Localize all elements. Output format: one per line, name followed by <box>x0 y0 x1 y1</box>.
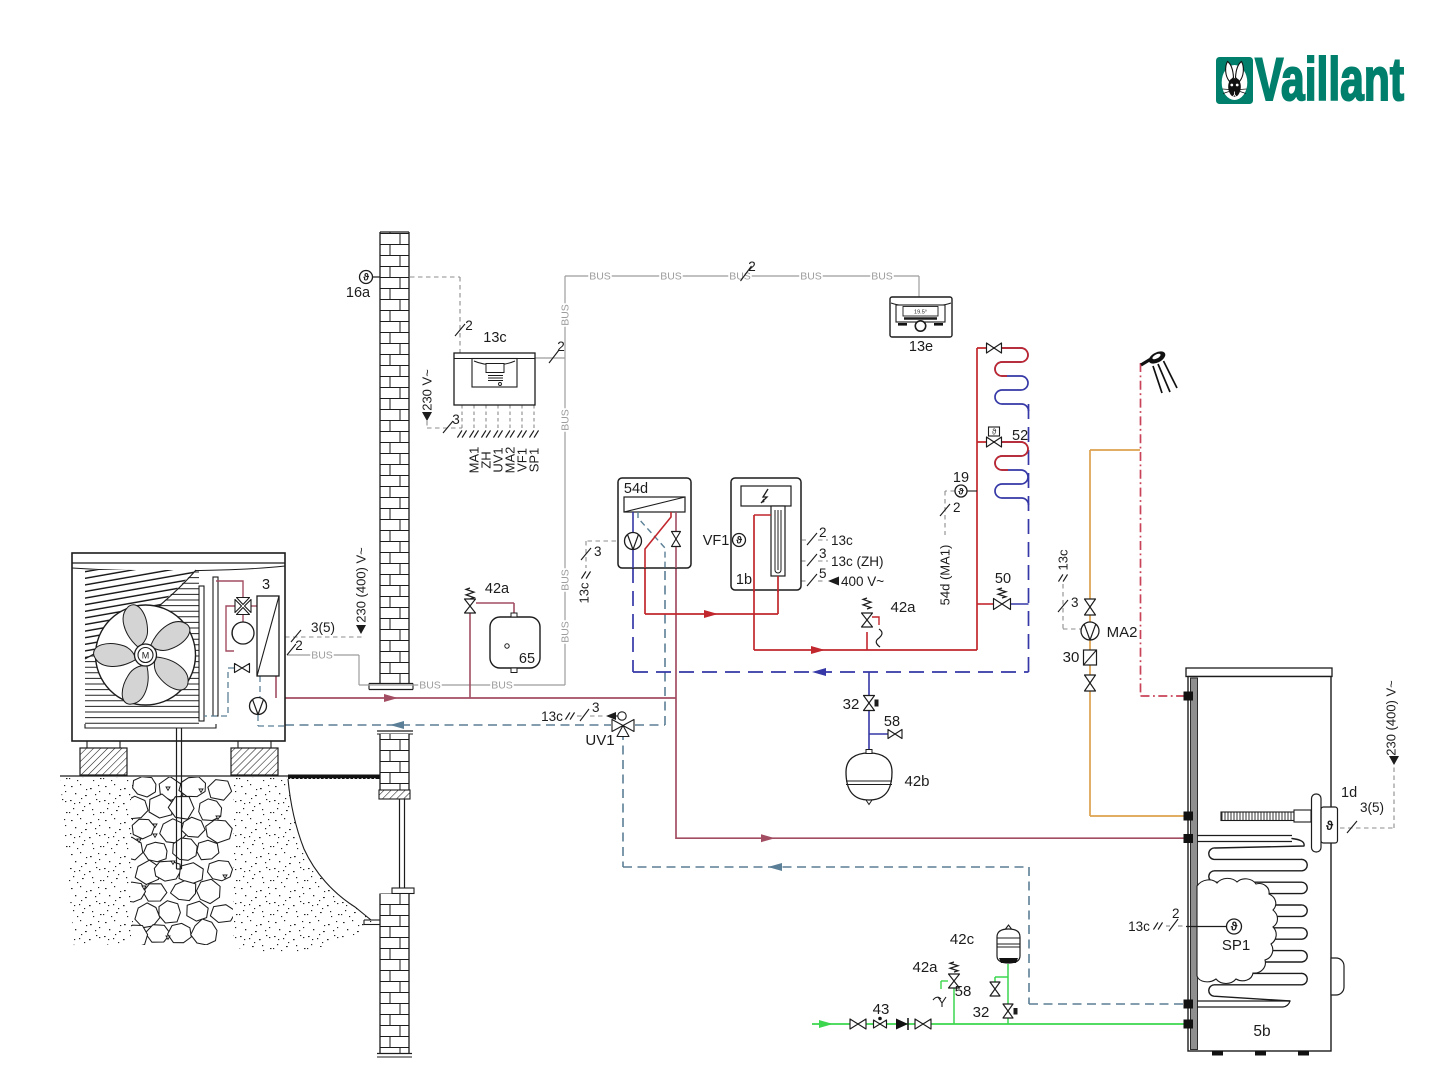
svg-text:13c: 13c <box>831 533 853 548</box>
svg-text:3: 3 <box>819 546 827 561</box>
svg-text:SP1: SP1 <box>527 448 542 473</box>
svg-text:BUS: BUS <box>589 271 611 283</box>
svg-text:UV1: UV1 <box>585 732 614 749</box>
svg-text:ϑ: ϑ <box>958 486 964 496</box>
svg-text:3: 3 <box>592 700 600 715</box>
svg-text:BUS: BUS <box>419 680 441 692</box>
svg-text:2: 2 <box>819 525 827 540</box>
svg-text:2: 2 <box>465 318 473 333</box>
svg-text:3: 3 <box>594 544 602 559</box>
svg-text:58: 58 <box>955 983 972 1000</box>
svg-text:3(5): 3(5) <box>311 620 335 635</box>
svg-text:50: 50 <box>995 571 1011 587</box>
svg-text:400 V~: 400 V~ <box>841 574 884 589</box>
svg-text:ϑ: ϑ <box>363 273 369 284</box>
svg-text:BUS: BUS <box>660 271 682 283</box>
svg-text:ϑ: ϑ <box>736 536 742 547</box>
svg-text:16a: 16a <box>346 285 371 301</box>
svg-text:2: 2 <box>953 500 961 515</box>
svg-text:19.5°: 19.5° <box>914 310 927 316</box>
svg-text:13c (ZH): 13c (ZH) <box>831 554 884 569</box>
svg-text:BUS: BUS <box>311 650 333 662</box>
svg-text:230 (400) V~: 230 (400) V~ <box>1384 680 1399 756</box>
svg-text:13c: 13c <box>577 582 592 603</box>
svg-text:54d: 54d <box>624 481 648 497</box>
svg-text:ϑ: ϑ <box>1231 921 1238 934</box>
svg-text:42a: 42a <box>912 959 938 976</box>
svg-text:BUS: BUS <box>560 304 572 326</box>
svg-text:3(5): 3(5) <box>1360 800 1384 815</box>
svg-text:42b: 42b <box>904 773 929 790</box>
svg-text:13c: 13c <box>1128 919 1150 934</box>
svg-text:1b: 1b <box>736 572 752 588</box>
svg-text:230 V~: 230 V~ <box>420 369 435 411</box>
svg-text:42a: 42a <box>890 599 916 616</box>
svg-text:ϑ: ϑ <box>992 428 997 437</box>
svg-text:2: 2 <box>1172 906 1180 921</box>
svg-text:13c: 13c <box>541 709 563 724</box>
svg-text:MA2: MA2 <box>1107 624 1138 641</box>
svg-text:32: 32 <box>973 1004 990 1021</box>
svg-text:BUS: BUS <box>871 271 893 283</box>
svg-text:13e: 13e <box>909 339 933 355</box>
svg-text:BUS: BUS <box>800 271 822 283</box>
svg-text:30: 30 <box>1063 649 1080 666</box>
svg-text:42c: 42c <box>950 931 975 948</box>
svg-text:BUS: BUS <box>560 621 572 643</box>
svg-text:2: 2 <box>295 638 303 653</box>
svg-text:43: 43 <box>873 1001 890 1018</box>
svg-text:VF1: VF1 <box>703 533 730 549</box>
svg-text:52: 52 <box>1012 428 1028 444</box>
svg-text:2: 2 <box>557 339 565 354</box>
svg-text:BUS: BUS <box>560 569 572 591</box>
svg-text:3: 3 <box>1071 595 1079 610</box>
svg-text:230 (400) V~: 230 (400) V~ <box>354 547 369 623</box>
svg-text:5b: 5b <box>1253 1023 1270 1040</box>
svg-text:58: 58 <box>884 714 900 730</box>
svg-text:ϑ: ϑ <box>1326 819 1334 833</box>
svg-text:SP1: SP1 <box>1222 937 1250 954</box>
svg-text:M: M <box>142 651 150 661</box>
svg-text:42a: 42a <box>485 581 510 597</box>
svg-text:19: 19 <box>953 470 969 486</box>
svg-text:Vaillant: Vaillant <box>1255 46 1404 113</box>
svg-text:32: 32 <box>843 696 860 713</box>
svg-text:3: 3 <box>452 412 460 427</box>
svg-text:13c: 13c <box>1056 549 1071 570</box>
svg-text:65: 65 <box>519 651 535 667</box>
svg-text:54d (MA1): 54d (MA1) <box>938 545 953 606</box>
svg-text:13c: 13c <box>483 330 506 346</box>
svg-text:3: 3 <box>262 577 270 593</box>
svg-text:BUS: BUS <box>560 409 572 431</box>
svg-text:2: 2 <box>748 259 756 274</box>
svg-text:1d: 1d <box>1341 785 1357 801</box>
svg-text:BUS: BUS <box>491 680 513 692</box>
svg-text:5: 5 <box>819 566 827 581</box>
